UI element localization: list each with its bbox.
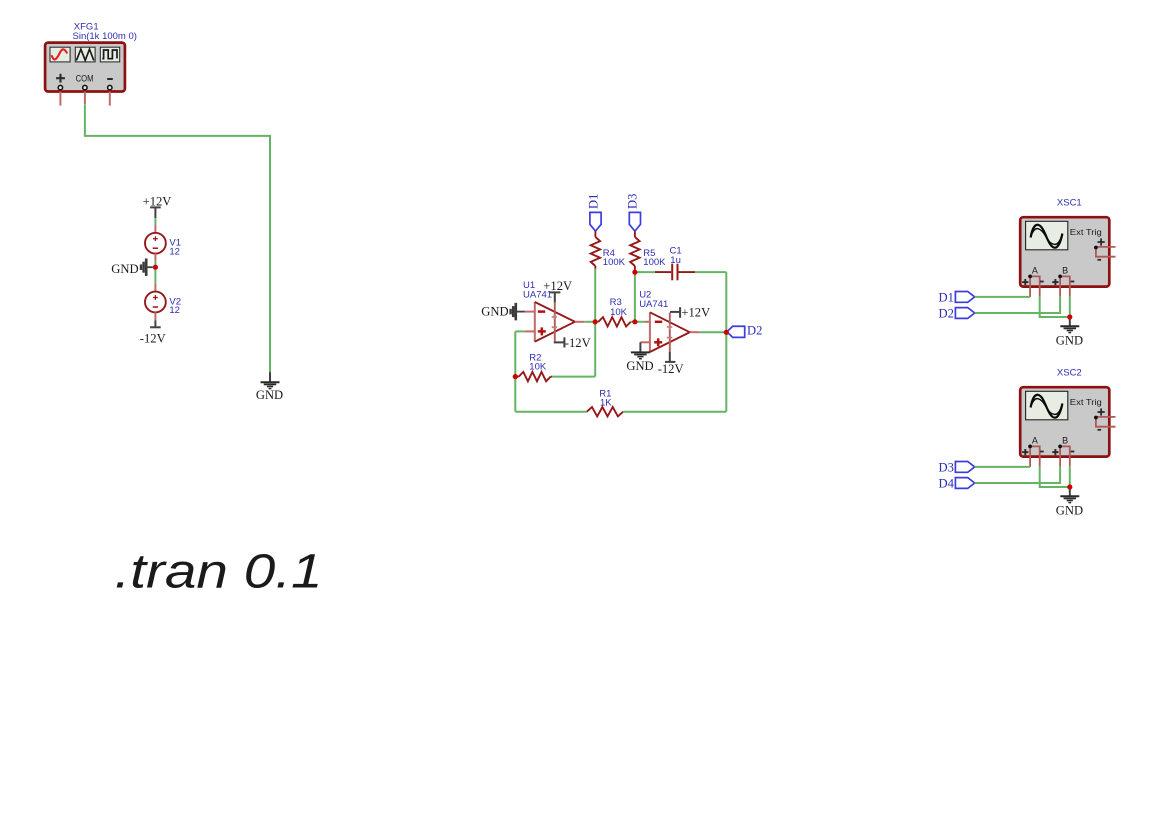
power +12V (V1 top)	[143, 195, 172, 218]
label V2 12	[169, 296, 181, 316]
svg-text:GND: GND	[1056, 333, 1083, 347]
capacitor C1	[655, 264, 695, 281]
ground GND (U2 + input)	[626, 342, 653, 373]
wire R3 to U2 - input	[631, 321, 645, 323]
wire V1 to V2	[154, 261, 156, 284]
connector D3	[938, 460, 974, 474]
svg-text:A: A	[1032, 435, 1038, 445]
connector D3 (top)	[626, 194, 641, 232]
wire D2 to channel B	[975, 296, 1060, 313]
svg-text:-12V: -12V	[565, 336, 591, 350]
svg-text:D2: D2	[747, 324, 762, 338]
node R5/C1 junction	[632, 270, 637, 275]
ground GND (U1 - input)	[481, 303, 525, 321]
svg-text:-12V: -12V	[140, 332, 166, 346]
svg-text:GND: GND	[626, 359, 653, 373]
XSC2 channel B pins	[1052, 435, 1074, 466]
resistor R5	[630, 231, 639, 272]
svg-text:Sin(1k 100m 0): Sin(1k 100m 0)	[73, 31, 137, 42]
svg-text:GND: GND	[111, 262, 138, 276]
wire R1 right	[623, 411, 726, 413]
node U1 output junction	[593, 319, 598, 324]
label R5 100K	[643, 248, 666, 268]
node R3 right junction	[632, 319, 637, 324]
wire R5 node to C1	[635, 271, 655, 273]
instrument XSC2 body	[1020, 387, 1109, 456]
svg-text:GND: GND	[481, 305, 508, 319]
label R3 10K	[610, 297, 628, 318]
wire channel B - to ground	[1069, 296, 1071, 317]
svg-text:D2: D2	[938, 306, 953, 320]
ground GND (between V1 V2)	[111, 258, 152, 276]
analysis directive .tran 0.1	[115, 545, 323, 598]
label U1 UA741	[523, 280, 552, 301]
XSC2 Ext Trig pin	[1094, 408, 1116, 429]
svg-text:10K: 10K	[610, 307, 628, 318]
XSC1 channel A pins	[1022, 265, 1043, 297]
svg-text:B: B	[1062, 435, 1068, 445]
wire R2 to output node	[552, 376, 595, 378]
power +12V (U2)	[670, 306, 710, 320]
svg-text:-12V: -12V	[658, 362, 684, 376]
ground GND (XSC2)	[1056, 487, 1083, 517]
wire D3 to channel A	[975, 466, 1030, 468]
XFG1 pin COM	[83, 85, 87, 104]
svg-text:100K: 100K	[603, 257, 626, 268]
label R4 100K	[603, 248, 626, 268]
power +12V (U1)	[543, 279, 572, 302]
wire U1 output	[584, 321, 598, 323]
node R2 left junction	[513, 374, 518, 379]
wire R5 node down to R3 node	[634, 272, 636, 322]
wire D1 to channel A	[975, 296, 1030, 298]
connector D1 (top)	[586, 194, 601, 232]
svg-text:+12V: +12V	[543, 279, 572, 293]
power -12V (U1)	[555, 336, 591, 350]
connector D4	[938, 476, 974, 490]
svg-text:GND: GND	[256, 388, 283, 402]
instrument XFG1 label	[73, 22, 137, 43]
svg-text:XSC1: XSC1	[1057, 198, 1082, 209]
svg-text:10K: 10K	[529, 361, 547, 372]
wire R4 to U1 output node	[594, 269, 596, 322]
wire R2 node down to R1	[514, 377, 516, 412]
svg-text:D3: D3	[938, 460, 953, 474]
svg-text:D1: D1	[586, 194, 600, 209]
svg-text:100K: 100K	[643, 257, 666, 268]
instrument XSC1 label	[1057, 198, 1082, 209]
XSC2 channel A pins	[1022, 435, 1043, 467]
wire channel A - to ground	[1040, 466, 1070, 487]
svg-text:12: 12	[169, 246, 180, 257]
wire channel B - to ground	[1069, 466, 1071, 487]
svg-text:A: A	[1032, 265, 1038, 275]
wire right rail up to D2 node	[725, 332, 727, 411]
XFG1 sine icon	[50, 47, 70, 62]
op-amp U2	[640, 312, 699, 352]
XFG1 plus terminal label	[56, 74, 65, 83]
svg-text:GND: GND	[1056, 503, 1083, 517]
svg-text:Ext Trig: Ext Trig	[1070, 397, 1102, 407]
ground GND (XSC1)	[1056, 317, 1083, 347]
XFG1 COM terminal label	[76, 74, 94, 84]
wire U2 output	[700, 331, 727, 333]
wire +12V to V1	[154, 218, 156, 225]
label R2 10K	[529, 353, 547, 373]
label V1 12	[169, 238, 181, 258]
svg-text:XSC2: XSC2	[1057, 368, 1082, 379]
wire right rail down to D2 node	[725, 272, 727, 332]
connector D1	[938, 290, 974, 304]
resistor R4	[591, 231, 600, 269]
svg-text:1u: 1u	[670, 255, 681, 266]
node D2 junction	[724, 330, 729, 335]
node XSC1 ground junction	[1067, 314, 1072, 319]
resistor R2	[515, 372, 552, 381]
wire channel A - to ground	[1040, 296, 1070, 317]
XSC1 Ext Trig pin	[1094, 238, 1116, 259]
wire D4 to channel B	[975, 466, 1060, 483]
svg-text:12: 12	[169, 305, 180, 316]
svg-text:B: B	[1062, 265, 1068, 275]
ground GND (below XFG1 wire)	[256, 372, 283, 402]
XFG1 square icon	[100, 47, 119, 62]
wire C1 to right rail	[695, 271, 726, 273]
svg-text:D1: D1	[938, 290, 953, 304]
svg-text:1K: 1K	[600, 398, 612, 409]
instrument XFG1 body	[45, 43, 125, 92]
svg-text:D3: D3	[626, 194, 640, 209]
resistor R3	[598, 317, 630, 326]
XFG1 pin +	[58, 85, 62, 105]
svg-text:.tran 0.1: .tran 0.1	[115, 545, 323, 598]
wire R1 left	[515, 411, 587, 413]
source V1	[145, 225, 166, 261]
power -12V (V2 bottom)	[140, 320, 166, 345]
XFG1 minus terminal label	[107, 78, 113, 80]
connector D2	[938, 306, 974, 320]
svg-text:D4: D4	[938, 476, 954, 490]
power -12V (U2)	[658, 352, 684, 376]
op-amp U1	[525, 302, 584, 342]
wire output node down	[594, 322, 596, 377]
source V2	[145, 284, 166, 321]
svg-text:Ext Trig: Ext Trig	[1070, 227, 1102, 237]
XFG1 pin -	[108, 85, 112, 105]
svg-text:+12V: +12V	[681, 306, 710, 320]
XFG1 triangle icon	[75, 47, 95, 62]
svg-text:COM: COM	[76, 74, 94, 84]
instrument XSC2 label	[1057, 368, 1082, 379]
wire U1 + input	[515, 331, 525, 376]
node XSC2 ground junction	[1067, 484, 1072, 489]
svg-text:UA741: UA741	[639, 299, 668, 310]
XSC1 channel B pins	[1052, 265, 1074, 296]
node V1-V2 junction	[153, 265, 158, 270]
wire XFG1 COM to GND	[85, 104, 270, 372]
label C1 1u	[670, 246, 682, 267]
label R1 1K	[599, 388, 612, 408]
resistor R1	[587, 407, 623, 416]
instrument XSC1 body	[1020, 217, 1109, 286]
connector D2 (output)	[727, 324, 763, 338]
label U2 UA741	[639, 289, 668, 310]
